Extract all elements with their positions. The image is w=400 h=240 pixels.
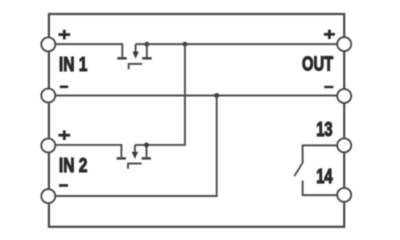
wire node A down to Q2 drain <box>147 44 185 145</box>
Q2 substrate arrow <box>132 152 138 159</box>
plus sign IN2+ <box>58 130 70 140</box>
transistor Q2 <box>117 143 151 169</box>
wire IN1- to OUT- <box>50 95 344 97</box>
Q2 substrate lead <box>134 145 136 153</box>
Q1 right channel bar (drain contact) <box>142 57 151 60</box>
terminal circle 14 <box>337 188 351 202</box>
node B junction dot <box>214 93 219 98</box>
Q2 left channel bar (source contact) <box>117 157 126 160</box>
Q2 gate stub <box>127 164 129 169</box>
terminal circle OUT- <box>337 89 351 103</box>
Q1 drain lead <box>146 44 148 57</box>
terminal circle IN2+ <box>41 139 55 153</box>
terminal circle 13 <box>337 139 351 153</box>
svg-text:OUT: OUT <box>302 52 333 75</box>
Q1 substrate lead <box>135 44 137 52</box>
wire IN1+ to Q1 source <box>50 44 122 57</box>
minus sign IN2- <box>59 184 68 187</box>
Q1 gate stub <box>128 64 130 69</box>
Q2 gate line <box>127 163 141 165</box>
svg-text:IN2: IN2 <box>59 154 87 177</box>
Q1 gate line <box>128 63 142 65</box>
Q1 left channel bar (source contact) <box>117 57 126 60</box>
Q2 wire from substrate corner to drain dot <box>135 144 147 146</box>
transistor Q1 <box>117 42 151 70</box>
relay contact blade (NO contact) <box>294 164 302 177</box>
svg-text:IN1: IN1 <box>59 53 87 76</box>
wire node B down to IN2- <box>50 96 217 197</box>
terminal circle IN1+ <box>41 38 55 52</box>
Q2 drain junction dot <box>144 143 149 148</box>
Q1 substrate arrow <box>132 52 138 59</box>
svg-text:13: 13 <box>316 117 332 140</box>
wire Q1 drain to OUT+ <box>136 43 344 45</box>
terminal circle OUT+ <box>337 37 351 51</box>
plus sign IN1+ <box>58 30 70 40</box>
wire terminal 13 to relay contact <box>303 145 344 163</box>
terminal circle IN1- <box>41 89 55 103</box>
minus sign IN1- <box>60 86 68 89</box>
wire IN2+ to Q2 source <box>50 145 121 157</box>
node A junction dot <box>183 42 188 47</box>
wire relay contact to terminal 14 <box>303 181 344 196</box>
Q1 drain junction dot <box>144 42 149 47</box>
svg-text:14: 14 <box>316 164 332 187</box>
terminal circle IN2- <box>41 189 55 203</box>
minus sign OUT- <box>324 86 333 88</box>
Q2 drain lead <box>146 145 148 157</box>
frame (module outline) <box>49 14 344 227</box>
plus sign OUT+ <box>324 30 335 39</box>
Q2 right channel bar (drain contact) <box>142 157 151 160</box>
